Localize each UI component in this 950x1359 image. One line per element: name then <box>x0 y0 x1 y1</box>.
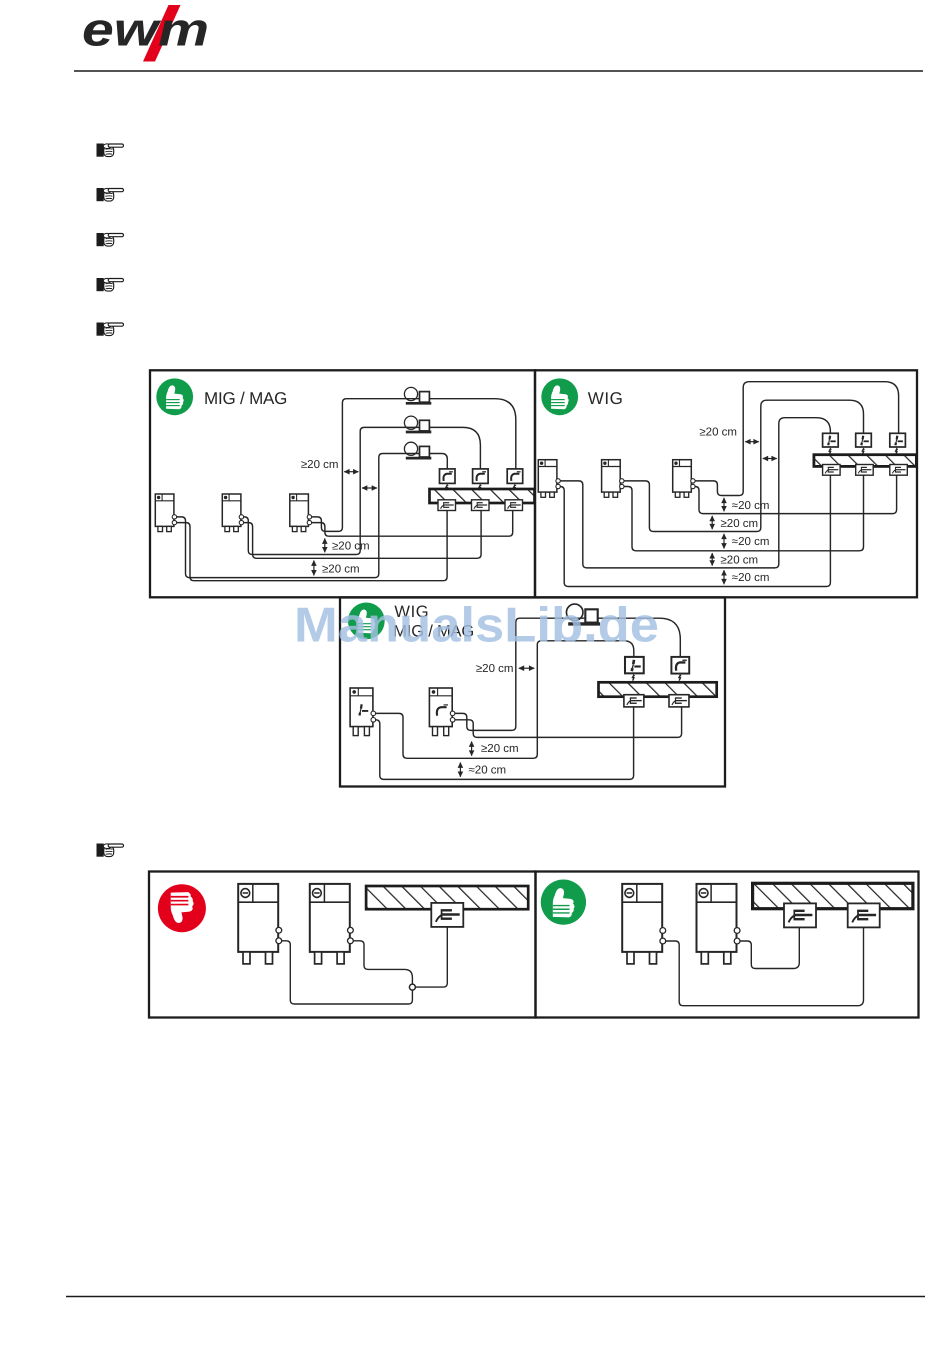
machine M2 <box>222 494 241 532</box>
wire junction to clamp <box>416 927 448 988</box>
workpiece bar MIG/MAG <box>430 489 535 503</box>
connector dots M1 <box>172 515 176 519</box>
torch T3 <box>507 469 523 484</box>
svg-text:≥20 cm: ≥20 cm <box>322 563 360 575</box>
clamp CW2 <box>856 465 874 476</box>
h-arrow comb <box>519 667 535 669</box>
workpiece bar good <box>753 883 913 908</box>
junction node <box>409 984 415 990</box>
wire feeder 1 <box>404 387 431 403</box>
clamp CW3 <box>890 465 908 476</box>
wire BM2 work lead <box>351 941 413 984</box>
svg-text:≥20 cm: ≥20 cm <box>721 518 759 530</box>
h-arrow 2 <box>362 487 377 489</box>
wire M1 torch lead <box>174 454 447 578</box>
clamp C3 <box>505 500 523 511</box>
connector dots BM3 <box>660 928 666 934</box>
panel WIG MIG/MAG combined box <box>340 598 725 787</box>
arc bolt W3 <box>896 448 899 455</box>
workpiece bar combined <box>599 682 717 696</box>
torch T1 <box>440 469 456 484</box>
v-arrow comb 1 <box>471 742 473 756</box>
clamp bad <box>431 903 463 927</box>
machine B MIG <box>429 688 452 736</box>
torch TW3 <box>890 433 906 447</box>
wire W1 work lead <box>558 475 831 586</box>
bottom good-example box <box>536 872 919 1018</box>
wire M2 torch lead <box>241 427 481 554</box>
bottom bad-example box <box>149 872 536 1018</box>
wire BM3 work lead <box>663 928 864 1006</box>
note hand 4 <box>97 278 124 291</box>
wire M3 work lead <box>309 509 513 536</box>
arc bolt W2 <box>862 448 865 455</box>
h-arrow 1 <box>344 471 358 473</box>
note hand 3 <box>97 233 124 246</box>
connector dots BM2 <box>348 927 354 933</box>
clamp C1 <box>438 500 456 511</box>
wire M1 work lead <box>174 509 447 580</box>
workpiece bar bad <box>366 886 528 909</box>
wire W1 torch lead <box>558 418 831 568</box>
clamp comb 1 <box>624 695 644 707</box>
h-arrow WIG 1 <box>745 441 759 443</box>
wire BM4 work lead <box>737 928 799 969</box>
wire W2 work lead <box>621 475 863 551</box>
wire W3 torch lead <box>693 382 899 496</box>
svg-text:≥20 cm: ≥20 cm <box>301 459 339 471</box>
connector dots A <box>371 711 376 716</box>
svg-text:≈20 cm: ≈20 cm <box>732 500 770 512</box>
machine M3 <box>290 494 309 532</box>
v-arrow WIG e <box>723 570 725 584</box>
connector dots W3 <box>691 479 695 483</box>
svg-text:≈20 cm: ≈20 cm <box>469 765 507 777</box>
wire BM1 work lead <box>279 941 412 1004</box>
machine W1 <box>538 460 557 498</box>
connector dots BM1 <box>276 927 282 933</box>
svg-text:ewm: ewm <box>82 3 209 56</box>
clamp C2 <box>472 500 490 511</box>
v-arrow WIG c <box>723 534 725 549</box>
wire feeder 3 <box>404 442 431 458</box>
wire M2 work lead <box>241 509 481 558</box>
v-arrow 2 <box>313 561 315 576</box>
machine BM2 <box>310 884 350 964</box>
connector dots BM4 <box>734 928 740 934</box>
arc bolt W1 <box>829 448 832 455</box>
ewm logo red slash <box>143 5 181 62</box>
arc bolt 1 <box>446 484 449 491</box>
thumbs-up icon bottom green <box>541 879 586 924</box>
torch TW1 <box>823 433 839 447</box>
wire B torch lead through feeder <box>453 618 680 730</box>
note hand 1 <box>97 144 124 157</box>
panel WIG box <box>535 370 917 597</box>
svg-text:≥20 cm: ≥20 cm <box>332 540 370 552</box>
feeder combined <box>566 604 600 624</box>
connector dots W1 <box>556 479 560 483</box>
machine M1 <box>155 494 174 532</box>
footer rule <box>66 1296 925 1298</box>
machine BM1 <box>238 884 278 964</box>
clamp good 1 <box>784 903 816 927</box>
wire M3 torch lead <box>309 399 516 532</box>
wire A torch lead <box>373 641 634 759</box>
torch WIG combined <box>625 657 644 673</box>
thumbs-up icon WIG <box>541 378 578 415</box>
machine W2 <box>602 460 621 498</box>
arc bolt 2 <box>479 484 482 491</box>
wire A work lead <box>373 706 633 780</box>
note hand 2 <box>97 188 124 201</box>
machine BM4 <box>697 884 737 964</box>
panel MIG/MAG box <box>150 370 535 597</box>
torch T2 <box>473 469 489 484</box>
wire W2 torch lead <box>621 400 863 531</box>
clamp good 2 <box>848 903 880 927</box>
wire B work lead <box>453 706 682 738</box>
machine A WIG <box>350 688 373 736</box>
v-arrow WIG b <box>711 516 713 529</box>
svg-text:ManualsLib.de: ManualsLib.de <box>294 599 659 653</box>
thumbs-down icon red <box>158 884 206 932</box>
arc bolt comb 2 <box>679 674 682 681</box>
svg-text:≥20 cm: ≥20 cm <box>476 663 514 675</box>
svg-text:≥20 cm: ≥20 cm <box>699 426 737 438</box>
machine W3 <box>673 460 692 498</box>
arc bolt 3 <box>514 484 517 491</box>
note hand 5 <box>97 323 124 336</box>
clamp comb 2 <box>669 695 689 707</box>
svg-text:≈20 cm: ≈20 cm <box>732 536 770 548</box>
connector dots M2 <box>239 515 243 519</box>
h-arrow WIG 2 <box>763 458 777 460</box>
svg-text:≥20 cm: ≥20 cm <box>481 743 519 755</box>
note hand 6 <box>97 844 124 857</box>
machine BM3 <box>622 884 662 964</box>
connector dots W2 <box>620 479 624 483</box>
arc bolt comb 1 <box>633 674 636 681</box>
torch MIG combined <box>671 657 689 674</box>
svg-text:MIG / MAG: MIG / MAG <box>204 389 287 408</box>
v-arrow WIG d <box>711 553 713 566</box>
svg-text:WIG: WIG <box>588 389 624 408</box>
thumbs-up icon combined <box>348 603 385 640</box>
v-arrow comb 2 <box>459 763 461 777</box>
workpiece bar WIG <box>814 455 917 467</box>
header rule <box>74 70 923 72</box>
wire feeder 2 <box>404 416 431 432</box>
wire W3 work lead <box>693 475 897 513</box>
connector dots B <box>450 711 455 716</box>
v-arrow WIG a <box>723 498 725 512</box>
svg-text:≈20 cm: ≈20 cm <box>732 572 770 584</box>
connector dots M3 <box>307 515 311 519</box>
v-arrow 1 <box>324 539 326 553</box>
torch TW2 <box>856 433 872 447</box>
thumbs-up icon MIG/MAG <box>156 378 193 415</box>
clamp CW1 <box>823 465 841 476</box>
svg-text:≥20 cm: ≥20 cm <box>721 554 759 566</box>
